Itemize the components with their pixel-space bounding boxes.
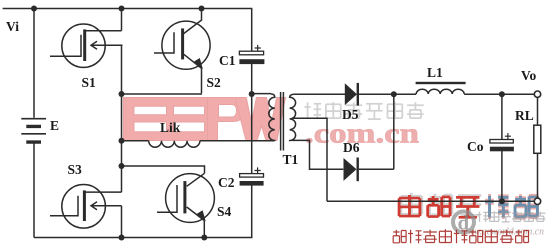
junction node A (S1 source / S2 emitter) bbox=[119, 91, 125, 97]
svg-text:Lik: Lik bbox=[160, 120, 181, 135]
wire bottom rail bbox=[34, 185, 252, 237]
svg-text:D6: D6 bbox=[343, 140, 360, 155]
wire L1 to output bbox=[464, 93, 534, 95]
junction S1 drain on top rail bbox=[119, 6, 125, 12]
watermark gray chinese 'electronic products world' bbox=[304, 102, 423, 119]
diode D6 bbox=[344, 158, 394, 182]
igbt S2 bbox=[154, 9, 210, 70]
svg-text:C2: C2 bbox=[218, 175, 235, 190]
terminal output bottom bbox=[534, 198, 540, 204]
junction midpoint to S4 collector bbox=[119, 163, 125, 169]
inductor L1 coil bbox=[416, 89, 464, 94]
battery E bbox=[21, 119, 46, 142]
svg-text:RL: RL bbox=[515, 108, 534, 123]
transformer core bbox=[281, 92, 284, 151]
capacitor C2 bbox=[240, 167, 264, 185]
svg-text:S4: S4 bbox=[217, 204, 232, 219]
wire C1-C2 midpoint vertical bbox=[251, 63, 253, 173]
svg-text:.com.cn: .com.cn bbox=[305, 118, 420, 149]
svg-text:T1: T1 bbox=[283, 152, 299, 167]
wire secondary top lead bbox=[295, 93, 346, 95]
inductor L1 core bar bbox=[416, 82, 466, 84]
wire S4 collector row bbox=[122, 166, 205, 173]
junction S4 emitter on bottom rail bbox=[201, 235, 207, 241]
diode D5 bbox=[345, 83, 394, 106]
wire phase-leg midpoint vertical bbox=[121, 9, 123, 238]
junction battery top rail bbox=[31, 6, 37, 12]
junction midpoint to Lik bbox=[119, 138, 125, 144]
wire S2 emitter vertical bbox=[201, 68, 203, 93]
watermark gray d-logo bbox=[453, 211, 474, 235]
resistor RL bbox=[534, 97, 541, 198]
junction Co bottom on return bbox=[499, 198, 505, 204]
capacitor Co bbox=[490, 94, 514, 201]
transformer T1 secondary bbox=[290, 94, 296, 140]
wire bottom return bbox=[327, 200, 534, 202]
wire primary top lead bbox=[252, 93, 271, 95]
svg-text:Vo: Vo bbox=[521, 68, 537, 83]
watermark red chinese slogan bbox=[393, 229, 528, 243]
svg-text:D5: D5 bbox=[342, 107, 359, 122]
svg-text:C1: C1 bbox=[219, 53, 236, 68]
svg-text:E: E bbox=[50, 118, 59, 133]
wire top rail bbox=[3, 9, 252, 52]
svg-text:Co: Co bbox=[467, 139, 484, 154]
wire S4 emitter vertical bbox=[203, 221, 205, 238]
wire secondary center tap bbox=[293, 118, 327, 201]
svg-text:Vi: Vi bbox=[6, 19, 19, 34]
junction S3 source on bottom rail bbox=[119, 235, 125, 241]
inductor Lik coil bbox=[149, 141, 200, 147]
wire battery column bbox=[33, 9, 35, 238]
svg-text:S1: S1 bbox=[82, 75, 97, 90]
junction S2 collector on top rail bbox=[199, 6, 205, 12]
mosfet S3 bbox=[50, 185, 122, 229]
igbt S4 bbox=[157, 173, 214, 222]
wire D6 cathode to D5 node bbox=[393, 94, 395, 169]
terminal Vo bbox=[534, 91, 540, 97]
watermark red/blue 3D logo 'yiditu peixun' bbox=[399, 193, 537, 219]
wire node A row bbox=[122, 93, 203, 95]
junction D5-D6 cathodes node bbox=[391, 91, 397, 97]
watermark EEPW big pink letters bbox=[123, 98, 285, 141]
capacitor C1 bbox=[239, 45, 264, 64]
junction C1-C2 midpoint / primary top bbox=[249, 91, 255, 97]
junction Co top on output node bbox=[499, 91, 505, 97]
svg-text:L1: L1 bbox=[427, 65, 443, 80]
wire secondary bottom lead bbox=[295, 140, 344, 169]
transformer T1 primary bbox=[269, 94, 275, 141]
svg-text:S3: S3 bbox=[68, 162, 83, 177]
inductor Lik row wire bbox=[122, 140, 149, 142]
wire Lik to primary bbox=[200, 140, 270, 142]
mosfet S1 bbox=[50, 24, 123, 67]
svg-text:S2: S2 bbox=[207, 75, 222, 90]
watermark gray 'eeworld' chinese bbox=[478, 211, 546, 222]
wire D5 node to L1 bbox=[394, 93, 416, 95]
